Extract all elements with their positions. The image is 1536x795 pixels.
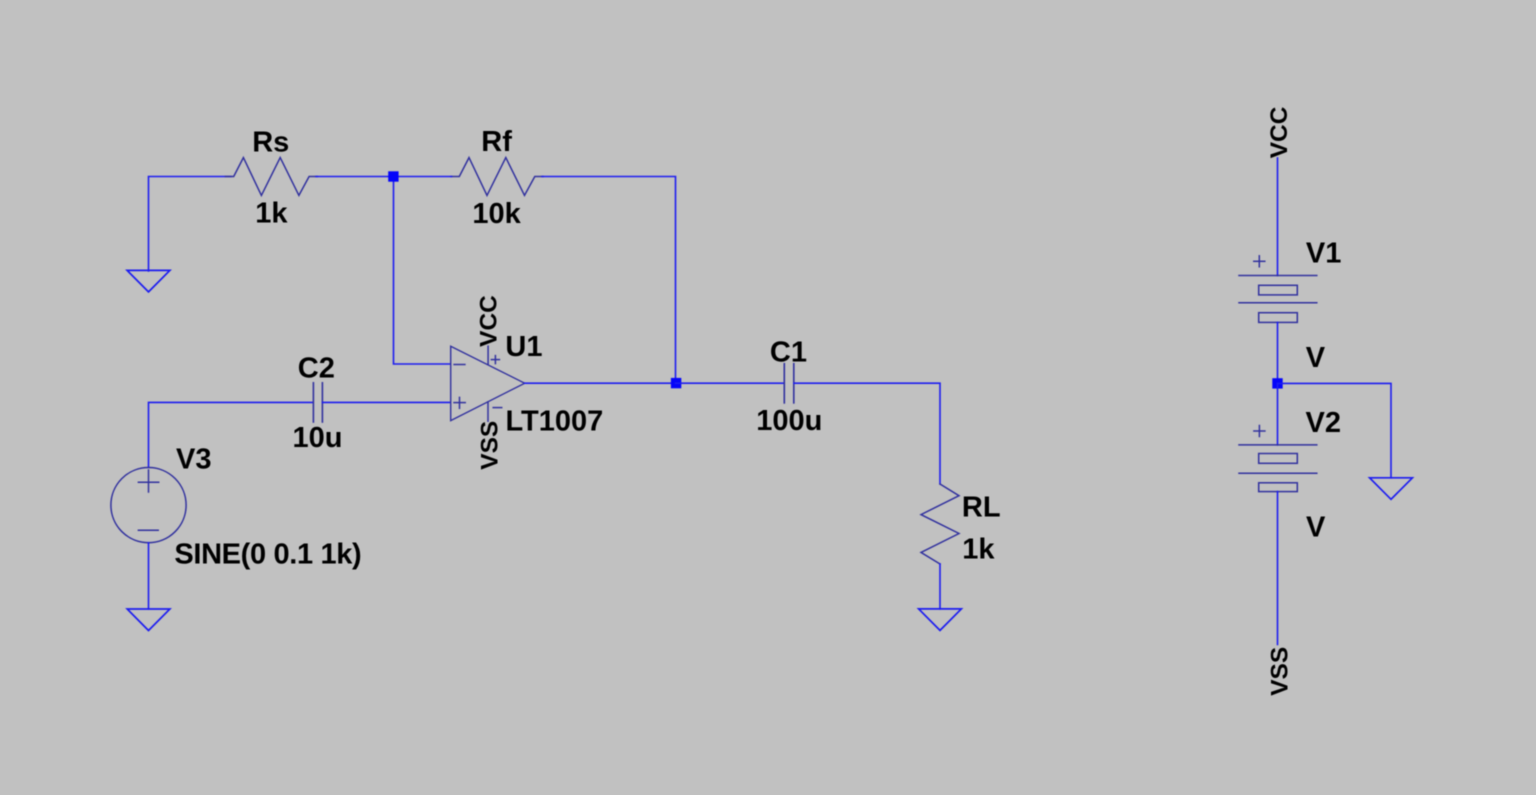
- wire Rs to node A: [316, 176, 394, 178]
- svg-text:V1: V1: [1306, 238, 1341, 270]
- svg-text:VSS: VSS: [476, 421, 503, 470]
- svg-text:V: V: [1306, 512, 1326, 544]
- svg-text:SINE(0 0.1 1k): SINE(0 0.1 1k): [174, 538, 361, 570]
- wire op-amp output to node B: [525, 382, 676, 384]
- svg-text:VCC: VCC: [476, 295, 503, 347]
- wire V1 to node V: [1277, 322, 1279, 383]
- wire V2 to VSS flag: [1277, 492, 1279, 645]
- wire Rf to output column: [542, 177, 676, 384]
- wire C2 to non-inverting input: [322, 401, 450, 403]
- svg-text:LT1007: LT1007: [506, 405, 604, 437]
- op-amp VSS minus mark: [493, 407, 502, 409]
- svg-text:RL: RL: [962, 492, 1001, 524]
- ground (right, node V): [1370, 478, 1413, 500]
- node A junction: [388, 171, 398, 181]
- ground (under V3): [127, 609, 170, 631]
- svg-text:10u: 10u: [293, 422, 343, 454]
- battery V2: [1239, 426, 1317, 492]
- svg-text:VCC: VCC: [1266, 106, 1293, 158]
- op-amp VSS pin stub: [487, 402, 489, 421]
- svg-text:1k: 1k: [255, 197, 288, 229]
- svg-text:V2: V2: [1306, 407, 1341, 439]
- svg-text:Rf: Rf: [481, 126, 512, 158]
- op-amp inverting input mark: [454, 364, 465, 366]
- svg-text:U1: U1: [505, 331, 542, 363]
- svg-text:Rs: Rs: [252, 126, 289, 158]
- capacitor C1: [784, 364, 794, 403]
- wire C1 to RL: [794, 383, 940, 484]
- resistor Rs: [225, 158, 317, 196]
- svg-text:V3: V3: [176, 443, 211, 475]
- svg-text:1k: 1k: [962, 534, 995, 566]
- op-amp U1 triangle: [451, 346, 525, 420]
- wire node B to capacitor C1: [676, 382, 785, 384]
- battery V1: [1239, 256, 1317, 323]
- svg-text:VSS: VSS: [1267, 647, 1294, 696]
- op-amp VCC pin stub: [487, 346, 489, 365]
- svg-text:C1: C1: [770, 337, 807, 369]
- svg-text:V: V: [1306, 342, 1326, 374]
- wire VCC flag to V1: [1277, 158, 1279, 276]
- svg-text:C2: C2: [298, 352, 335, 384]
- node B junction: [671, 378, 681, 388]
- wire node A to Rf: [394, 176, 452, 178]
- ground (left, under Rs input): [127, 270, 170, 292]
- wire RL to ground: [939, 564, 941, 609]
- wire node V to right ground: [1278, 383, 1392, 477]
- capacitor C2: [313, 383, 322, 422]
- resistor Rf: [451, 158, 543, 196]
- svg-text:100u: 100u: [756, 405, 822, 437]
- op-amp non-inverting input mark: [454, 397, 465, 408]
- wire top-left from ground to Rs: [149, 177, 232, 271]
- wire V3 to capacitor C2: [149, 402, 314, 467]
- op-amp VCC plus mark: [491, 356, 499, 364]
- wire V3 to ground: [148, 543, 150, 609]
- svg-text:10k: 10k: [472, 198, 521, 230]
- ground (under RL): [919, 609, 962, 631]
- voltage source V3: [111, 468, 186, 543]
- resistor RL: [921, 484, 959, 564]
- node V junction: [1272, 378, 1282, 388]
- wire node V to V2: [1277, 383, 1279, 445]
- wire node A down to inverting input: [394, 177, 451, 365]
